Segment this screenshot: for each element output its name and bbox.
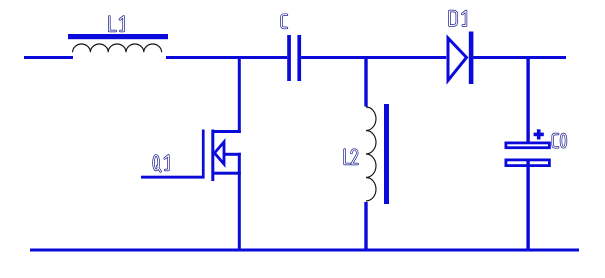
- wire: input stub left: [24, 56, 73, 59]
- label C0: [553, 134, 566, 147]
- wire: L1 to capacitor C: [166, 56, 287, 59]
- inductor L1 winding: [73, 44, 162, 52]
- capacitor C0 upper plate: [506, 143, 550, 148]
- capacitor C left plate: [287, 35, 291, 81]
- label L1: [109, 17, 123, 32]
- wire: C to diode D1: [301, 56, 446, 59]
- wire: L2 top stub: [364, 56, 367, 107]
- label L2: [345, 150, 358, 165]
- capacitor C0 lower plate: [506, 160, 550, 166]
- label C: [282, 15, 287, 28]
- wire: Q1 drain vertical: [238, 56, 241, 133]
- diode D1 cathode bar: [469, 32, 474, 85]
- transistor Q1 body line: [224, 153, 241, 156]
- wire: bottom rail: [30, 249, 579, 252]
- wire: D1 to output stub right: [473, 56, 566, 59]
- capacitor C right plate: [297, 35, 301, 81]
- label Q1: [154, 156, 169, 172]
- wire: C0 top stub: [526, 56, 529, 142]
- label D1: [450, 11, 467, 26]
- transistor Q1 body arrow: [215, 142, 225, 164]
- transistor Q1 source lead: [212, 172, 241, 175]
- inductor L2 core bar: [384, 104, 389, 204]
- transistor Q1 channel bar: [211, 130, 214, 182]
- inductor L2 winding: [366, 107, 376, 201]
- transistor Q1 body-source vertical: [238, 153, 241, 174]
- transistor Q1 drain lead: [212, 130, 241, 133]
- diode D1 triangle: [448, 38, 467, 81]
- wire: C0 bottom to rail: [526, 159, 529, 252]
- plus sign of C0: [534, 133, 544, 137]
- inductor L1 core bar: [68, 34, 168, 39]
- wire: Q1 source to bottom rail: [238, 173, 241, 252]
- transistor Q1 gate lead: [141, 176, 205, 179]
- wire: L2 bottom stub: [364, 202, 367, 252]
- transistor Q1 gate bar: [202, 130, 205, 179]
